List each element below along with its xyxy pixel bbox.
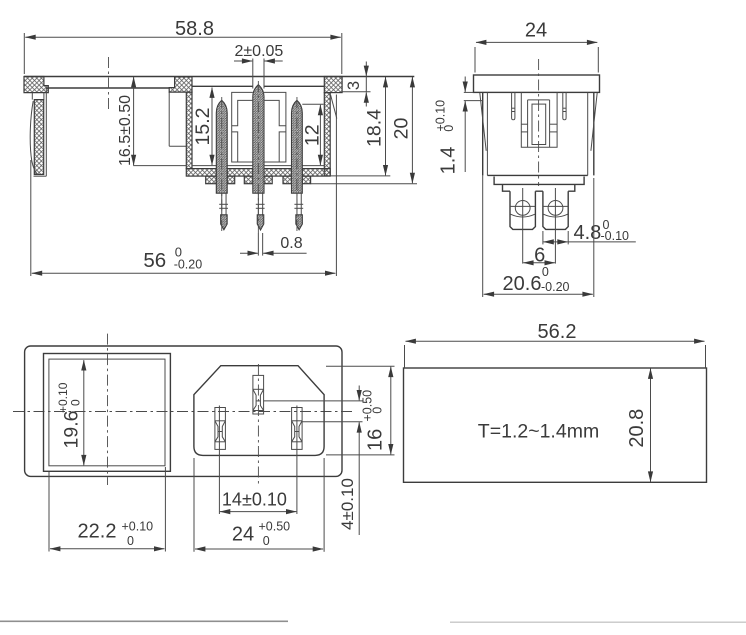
fuse drawer step vertical (168, 92, 170, 146)
pin left centerline (221, 97, 223, 232)
dimension 56.2 (405, 321, 706, 368)
svg-text:0: 0 (542, 265, 549, 279)
end view centerline (538, 59, 540, 186)
svg-text:0.8: 0.8 (280, 235, 302, 252)
svg-text:58.8: 58.8 (175, 18, 214, 40)
cavity floor line (133, 165, 324, 167)
svg-text:+0.50: +0.50 (259, 519, 291, 533)
left clip spring curve (30, 101, 37, 175)
fuse cavity left wall (45, 88, 47, 176)
dimension 20 side view (311, 77, 417, 184)
svg-text:22.2: 22.2 (78, 521, 117, 543)
end view body sides outer (483, 92, 594, 175)
dimension 18.4 (330, 77, 390, 176)
svg-text:20.8: 20.8 (626, 409, 648, 448)
dimension 16.5±0.50 (117, 77, 134, 166)
end view flange (474, 75, 600, 92)
fuse drawer step horizontal (169, 145, 186, 147)
svg-text:2±0.05: 2±0.05 (234, 43, 283, 60)
dimension 3 (342, 62, 370, 107)
pin center side-view (253, 85, 265, 230)
teeth hatched segments (206, 176, 311, 184)
dimension 0.8 (240, 233, 307, 256)
pin left side-view (216, 100, 228, 230)
svg-text:24: 24 (525, 20, 547, 42)
N pin face view (292, 408, 303, 450)
C14 centerline vertical (257, 364, 259, 486)
fuse cover outer square (44, 354, 171, 472)
L N pin centerlines (219, 406, 297, 515)
dimension 12 (302, 104, 324, 165)
dimension 2±0.05 (234, 43, 283, 89)
left socket wall hatched (186, 92, 192, 169)
svg-text:0: 0 (371, 407, 385, 414)
left clip neck (32, 93, 44, 100)
svg-text:0: 0 (69, 399, 83, 406)
svg-text:3: 3 (345, 81, 363, 90)
left clip bottom tick (34, 175, 47, 177)
svg-text:20.6: 20.6 (503, 273, 542, 295)
dimension 4.8 (543, 218, 636, 245)
end view latch wings (480, 93, 597, 151)
svg-text:56.2: 56.2 (538, 321, 577, 343)
fuse cavity ceiling (46, 87, 169, 89)
end view earth shroud inner (532, 104, 546, 144)
right clip leaf (331, 95, 337, 119)
svg-text:4.8: 4.8 (574, 222, 602, 244)
svg-text:56: 56 (143, 249, 166, 272)
svg-text:6: 6 (534, 245, 545, 267)
dimension 20.6 (483, 175, 594, 297)
end view earth shroud outer (521, 92, 557, 147)
svg-text:0: 0 (263, 534, 270, 548)
dimension 15.2 (192, 88, 214, 166)
svg-text:T=1.2~1.4mm: T=1.2~1.4mm (478, 420, 599, 442)
bottom gray line left (0, 621, 288, 623)
earth pin face view (253, 375, 264, 414)
pin center centerline (257, 81, 259, 233)
fuse cover inner square (49, 359, 165, 466)
svg-text:+0.10: +0.10 (122, 519, 154, 533)
dimension 19.6 (56, 360, 84, 465)
L pin face view (215, 408, 226, 450)
dimension 1.4 (434, 77, 483, 175)
end view step1 (494, 177, 584, 185)
svg-text:+0.50: +0.50 (360, 390, 374, 422)
dimension 4±0.10 (264, 386, 363, 536)
fuse centerline (108, 57, 110, 110)
svg-text:1.4: 1.4 (438, 147, 460, 175)
earth contact bracket (232, 92, 286, 162)
dimension 24 face view (194, 458, 324, 552)
dimension 20.8 (626, 369, 650, 482)
end view shroud side ticks (521, 124, 557, 132)
panel text (478, 420, 599, 442)
left socket wall top block hatched (169, 77, 192, 92)
end view step2 (503, 184, 575, 191)
dimension 22.2 (49, 467, 165, 552)
fuse cover centerline (107, 334, 109, 485)
end view left slot (512, 92, 515, 119)
dimension 16 (326, 366, 395, 455)
end view right slot (563, 92, 566, 119)
bottom gray line right (450, 622, 746, 623)
svg-text:-0.10: -0.10 (601, 229, 630, 243)
dimension 24 end view (475, 20, 598, 73)
svg-text:20: 20 (390, 118, 412, 140)
face view horizontal centerline (13, 411, 352, 413)
svg-text:4±0.10: 4±0.10 (338, 478, 357, 530)
dimension 14±0.10 (220, 489, 297, 511)
end view pin right (543, 191, 568, 229)
svg-text:16.5±0.50: 16.5±0.50 (117, 95, 134, 166)
dimension 58.8 (24, 18, 342, 74)
svg-text:0: 0 (442, 125, 456, 132)
bottom wall strip hatched segments (186, 169, 330, 177)
C14 outline (194, 366, 324, 456)
svg-text:18.4: 18.4 (364, 109, 386, 147)
dimension 56 (31, 95, 337, 277)
dimension 6 (523, 245, 555, 267)
pin right side-view (292, 100, 304, 230)
face view outer rounded rect (25, 346, 342, 476)
svg-text:19.6: 19.6 (61, 411, 83, 449)
socket ceiling segments (192, 85, 324, 87)
svg-text:0: 0 (127, 534, 134, 548)
flange right hatched (324, 77, 342, 93)
pin right centerline (296, 97, 298, 232)
svg-text:24: 24 (232, 524, 254, 546)
panel rect (404, 368, 707, 482)
end view body bottom (487, 174, 587, 176)
svg-text:14±0.10: 14±0.10 (222, 489, 287, 509)
svg-text:16: 16 (365, 429, 387, 451)
svg-text:+0.10: +0.10 (56, 382, 70, 413)
end view pin left (510, 191, 535, 229)
svg-text:-0.20: -0.20 (174, 257, 203, 271)
right body wall hatched (324, 93, 330, 176)
end view pin centerlines (523, 188, 556, 264)
svg-text:12: 12 (302, 124, 324, 146)
side view top face line (24, 76, 414, 78)
end view body sides inner (487, 92, 587, 175)
left clip bar hatched (34, 100, 43, 175)
flange left hatched (24, 77, 48, 93)
svg-text:15.2: 15.2 (192, 108, 214, 146)
end view earth shroud middle (528, 100, 550, 147)
svg-text:-0.20: -0.20 (541, 280, 570, 294)
